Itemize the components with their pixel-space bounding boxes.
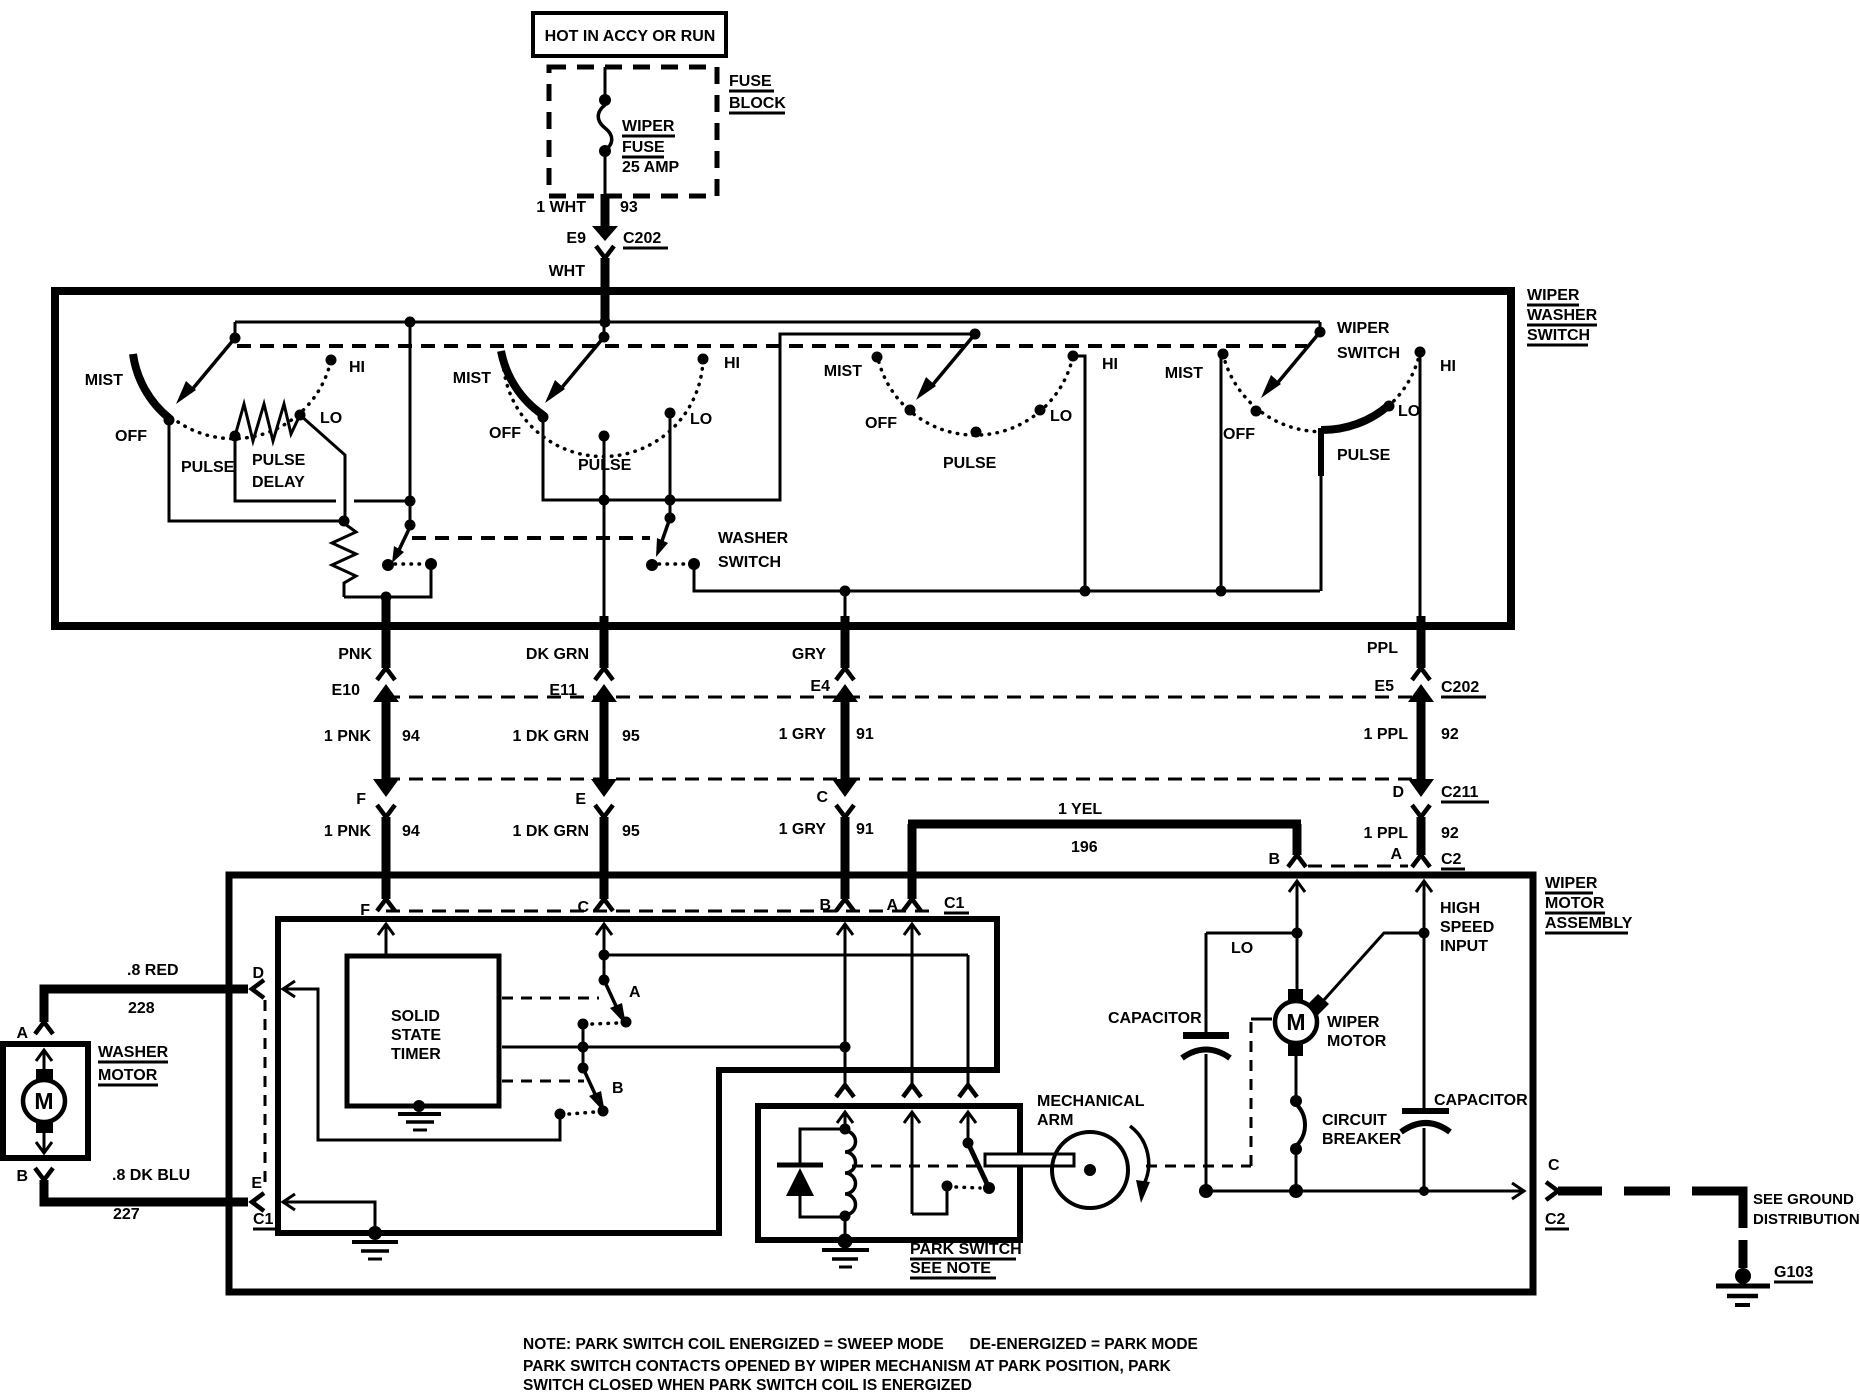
svg-text:95: 95 bbox=[622, 823, 640, 840]
svg-text:PNK: PNK bbox=[338, 646, 372, 663]
svg-text:WASHER: WASHER bbox=[1527, 307, 1598, 324]
svg-text:HI: HI bbox=[349, 359, 365, 376]
svg-text:E10: E10 bbox=[332, 682, 361, 699]
svg-text:MIST: MIST bbox=[824, 363, 862, 380]
svg-text:C1: C1 bbox=[253, 1211, 274, 1228]
svg-text:E: E bbox=[575, 791, 586, 808]
svg-text:C: C bbox=[816, 789, 828, 806]
svg-text:C2: C2 bbox=[1545, 1211, 1566, 1228]
svg-text:91: 91 bbox=[856, 821, 874, 838]
svg-text:PARK SWITCH CONTACTS OPENED BY: PARK SWITCH CONTACTS OPENED BY WIPER MEC… bbox=[523, 1358, 1172, 1375]
svg-text:MECHANICAL: MECHANICAL bbox=[1037, 1093, 1145, 1110]
svg-text:B: B bbox=[1268, 851, 1280, 868]
svg-text:OFF: OFF bbox=[865, 415, 897, 432]
svg-text:PULSE: PULSE bbox=[943, 455, 997, 472]
svg-text:PPL: PPL bbox=[1367, 640, 1398, 657]
svg-text:C2: C2 bbox=[1441, 851, 1462, 868]
svg-text:1 PPL: 1 PPL bbox=[1364, 726, 1409, 743]
svg-text:STATE: STATE bbox=[391, 1027, 441, 1044]
svg-text:HI: HI bbox=[1102, 356, 1118, 373]
svg-text:PULSE: PULSE bbox=[252, 452, 306, 469]
svg-text:FUSE: FUSE bbox=[729, 73, 772, 90]
svg-text:D: D bbox=[1392, 784, 1404, 801]
svg-text:PARK SWITCH: PARK SWITCH bbox=[910, 1241, 1022, 1258]
svg-text:MOTOR: MOTOR bbox=[1545, 895, 1605, 912]
svg-text:MOTOR: MOTOR bbox=[1327, 1033, 1387, 1050]
svg-text:CAPACITOR: CAPACITOR bbox=[1434, 1092, 1528, 1109]
svg-text:1 GRY: 1 GRY bbox=[779, 821, 827, 838]
svg-text:D: D bbox=[252, 965, 264, 982]
svg-text:C202: C202 bbox=[623, 230, 661, 247]
svg-text:A: A bbox=[1390, 846, 1402, 863]
svg-text:SPEED: SPEED bbox=[1440, 919, 1494, 936]
svg-text:LO: LO bbox=[1050, 408, 1072, 425]
svg-text:C: C bbox=[577, 899, 589, 916]
svg-text:MIST: MIST bbox=[453, 370, 491, 387]
svg-text:OFF: OFF bbox=[115, 428, 147, 445]
svg-text:1 PPL: 1 PPL bbox=[1364, 825, 1409, 842]
svg-text:WIPER: WIPER bbox=[1527, 287, 1580, 304]
svg-text:WIPER: WIPER bbox=[622, 118, 675, 135]
svg-text:93: 93 bbox=[620, 199, 638, 216]
svg-text:C: C bbox=[1548, 1157, 1560, 1174]
svg-text:1 PNK: 1 PNK bbox=[324, 728, 372, 745]
svg-text:91: 91 bbox=[856, 726, 874, 743]
svg-text:HOT IN ACCY OR RUN: HOT IN ACCY OR RUN bbox=[545, 28, 716, 45]
svg-text:HI: HI bbox=[1440, 358, 1456, 375]
svg-text:INPUT: INPUT bbox=[1440, 938, 1488, 955]
svg-text:WIPER: WIPER bbox=[1545, 875, 1598, 892]
svg-text:1 GRY: 1 GRY bbox=[779, 726, 827, 743]
svg-text:.8 DK BLU: .8 DK BLU bbox=[112, 1167, 190, 1184]
svg-text:B: B bbox=[16, 1168, 28, 1185]
svg-text:LO: LO bbox=[1231, 940, 1253, 957]
svg-text:DISTRIBUTION: DISTRIBUTION bbox=[1753, 1211, 1860, 1228]
svg-text:1 DK GRN: 1 DK GRN bbox=[513, 823, 589, 840]
svg-text:A: A bbox=[629, 984, 641, 1001]
svg-text:SWITCH: SWITCH bbox=[718, 554, 781, 571]
svg-text:FUSE: FUSE bbox=[622, 139, 665, 156]
svg-text:228: 228 bbox=[128, 1000, 155, 1017]
svg-text:BLOCK: BLOCK bbox=[729, 95, 786, 112]
svg-text:CAPACITOR: CAPACITOR bbox=[1108, 1010, 1202, 1027]
svg-text:B: B bbox=[612, 1080, 624, 1097]
svg-text:196: 196 bbox=[1071, 839, 1098, 856]
svg-text:MIST: MIST bbox=[1165, 365, 1203, 382]
svg-text:M: M bbox=[34, 1088, 53, 1114]
svg-text:PULSE: PULSE bbox=[1337, 447, 1391, 464]
svg-text:WASHER: WASHER bbox=[718, 530, 789, 547]
svg-text:LO: LO bbox=[1398, 403, 1420, 420]
svg-text:M: M bbox=[1286, 1009, 1305, 1035]
svg-text:MIST: MIST bbox=[85, 372, 123, 389]
svg-text:G103: G103 bbox=[1774, 1264, 1813, 1281]
svg-text:C211: C211 bbox=[1441, 784, 1478, 801]
svg-text:1 WHT: 1 WHT bbox=[536, 199, 586, 216]
svg-text:DELAY: DELAY bbox=[252, 474, 305, 491]
svg-text:SOLID: SOLID bbox=[391, 1008, 440, 1025]
svg-text:MOTOR: MOTOR bbox=[98, 1067, 158, 1084]
svg-text:1 DK GRN: 1 DK GRN bbox=[513, 728, 589, 745]
svg-text:WIPER: WIPER bbox=[1337, 320, 1390, 337]
svg-text:HI: HI bbox=[724, 355, 740, 372]
svg-text:A: A bbox=[16, 1025, 28, 1042]
svg-text:NOTE: PARK SWITCH COIL ENERGI: NOTE: PARK SWITCH COIL ENERGIZED = SWEEP… bbox=[523, 1336, 1198, 1353]
svg-text:E9: E9 bbox=[566, 230, 586, 247]
svg-text:SEE GROUND: SEE GROUND bbox=[1753, 1191, 1854, 1208]
svg-text:WASHER: WASHER bbox=[98, 1044, 169, 1061]
svg-text:WHT: WHT bbox=[549, 263, 586, 280]
svg-text:A: A bbox=[886, 897, 898, 914]
svg-text:E5: E5 bbox=[1374, 678, 1394, 695]
svg-text:SEE NOTE: SEE NOTE bbox=[910, 1260, 991, 1277]
svg-text:25 AMP: 25 AMP bbox=[622, 159, 680, 176]
svg-text:OFF: OFF bbox=[1223, 426, 1255, 443]
svg-text:SWITCH: SWITCH bbox=[1527, 327, 1590, 344]
svg-text:HIGH: HIGH bbox=[1440, 900, 1480, 917]
svg-text:SWITCH CLOSED WHEN PARK SWITCH: SWITCH CLOSED WHEN PARK SWITCH COIL IS E… bbox=[523, 1377, 972, 1392]
svg-text:GRY: GRY bbox=[792, 646, 826, 663]
svg-text:C1: C1 bbox=[944, 895, 965, 912]
svg-text:C202: C202 bbox=[1441, 679, 1479, 696]
svg-text:94: 94 bbox=[402, 728, 420, 745]
svg-text:TIMER: TIMER bbox=[391, 1046, 441, 1063]
svg-text:CIRCUIT: CIRCUIT bbox=[1322, 1112, 1387, 1129]
svg-text:E: E bbox=[251, 1175, 262, 1192]
svg-text:94: 94 bbox=[402, 823, 420, 840]
svg-text:LO: LO bbox=[320, 410, 342, 427]
svg-text:.8 RED: .8 RED bbox=[127, 962, 179, 979]
svg-text:DK GRN: DK GRN bbox=[526, 646, 589, 663]
svg-text:OFF: OFF bbox=[489, 425, 521, 442]
svg-text:F: F bbox=[356, 791, 366, 808]
svg-text:LO: LO bbox=[690, 411, 712, 428]
svg-text:227: 227 bbox=[113, 1206, 140, 1223]
svg-text:92: 92 bbox=[1441, 825, 1459, 842]
svg-text:1 YEL: 1 YEL bbox=[1058, 801, 1102, 818]
svg-text:SWITCH: SWITCH bbox=[1337, 345, 1400, 362]
svg-text:PULSE: PULSE bbox=[181, 459, 235, 476]
svg-text:92: 92 bbox=[1441, 726, 1459, 743]
svg-text:WIPER: WIPER bbox=[1327, 1014, 1380, 1031]
svg-text:95: 95 bbox=[622, 728, 640, 745]
svg-text:ARM: ARM bbox=[1037, 1112, 1073, 1129]
svg-text:ASSEMBLY: ASSEMBLY bbox=[1545, 915, 1633, 932]
svg-text:B: B bbox=[819, 897, 831, 914]
svg-text:1 PNK: 1 PNK bbox=[324, 823, 372, 840]
svg-text:E4: E4 bbox=[810, 678, 830, 695]
svg-text:BREAKER: BREAKER bbox=[1322, 1131, 1402, 1148]
